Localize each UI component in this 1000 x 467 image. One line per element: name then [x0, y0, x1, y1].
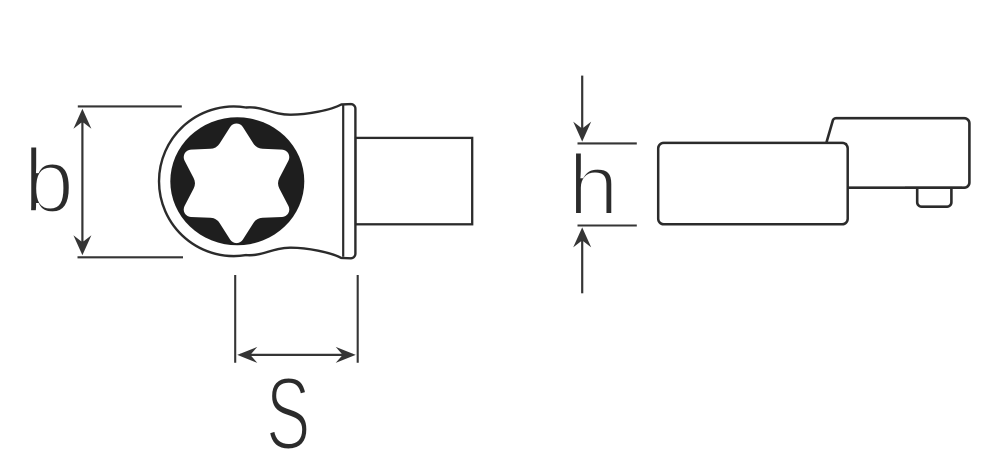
svg-text:b: b: [24, 131, 74, 232]
svg-text:h: h: [568, 137, 619, 233]
svg-text:S: S: [266, 356, 310, 462]
